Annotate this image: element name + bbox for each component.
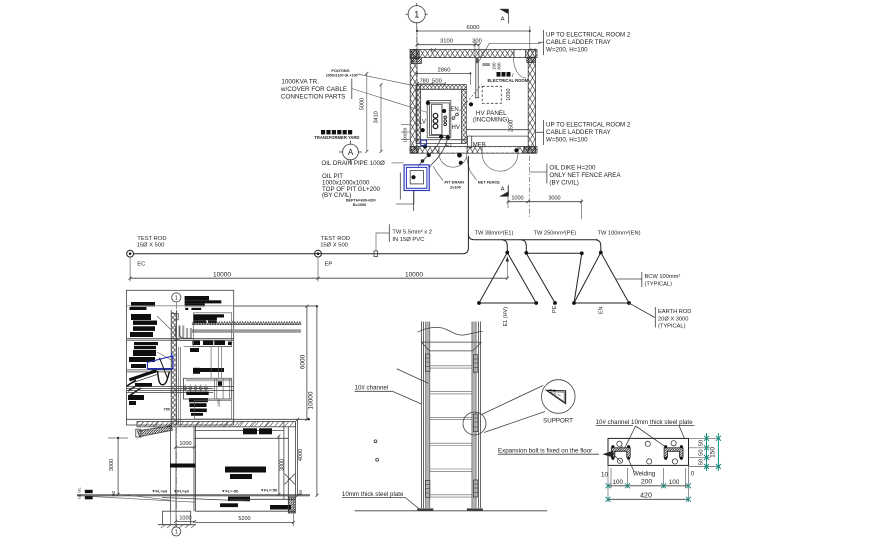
right rail flanges [479,322,481,509]
svg-text:EN: EN [598,306,604,314]
svg-text:1: 1 [175,296,178,302]
svg-text:1000: 1000 [511,196,523,202]
svg-text:1000x1100 GL+100: 1000x1100 GL+100 [326,74,358,78]
section bubble A [339,141,362,164]
ground slope lines [93,495,195,502]
label 10mm thick steel plate [342,491,421,511]
transformer outer box [427,101,451,138]
svg-text:1000: 1000 [179,441,191,447]
svg-text:ONLY NET FENCE AREA: ONLY NET FENCE AREA [549,172,621,179]
rung clips left [425,354,429,497]
svg-text:OIL DRAIN PIPE 100Ø: OIL DRAIN PIPE 100Ø [321,160,385,167]
svg-text:4000: 4000 [298,449,304,461]
svg-text:420: 420 [640,492,652,499]
svg-text:MEB: MEB [473,143,486,149]
svg-text:50: 50 [699,440,705,446]
svg-text:2500: 2500 [508,120,514,132]
blobs inside pit [220,467,291,510]
room frame [126,290,233,425]
expansion bolt label [498,446,623,462]
svg-text:TEST ROD: TEST ROD [137,236,166,242]
dim 3000 (pit right) [277,435,285,497]
duct wedge below slab [136,426,173,437]
svg-text:TW 38mm²(E1): TW 38mm²(E1) [475,231,514,237]
svg-text:IN 15Ø PVC: IN 15Ø PVC [392,237,424,243]
svg-text:250: 250 [403,127,408,135]
wall left [410,50,417,154]
svg-text:GL GL: GL GL [77,487,82,499]
wire drop E1 [502,240,507,253]
svg-text:6000: 6000 [299,354,306,369]
svg-text:EP: EP [325,261,333,267]
svg-text:EC: EC [137,261,145,267]
junction dots [421,101,519,165]
cable tray drop [475,58,490,98]
transformer yard left wall [416,85,420,144]
label 10# channel (plate) [596,419,633,426]
dim 10000 (EC-EP) [129,258,320,282]
svg-text:1450: 1450 [217,399,221,407]
svg-text:E1: E1 [446,143,453,149]
pit floor [162,498,295,512]
section marker A (bottom) [500,185,509,196]
HV room floor lines [466,130,528,136]
GL ground line [77,495,310,496]
dim 10000 (right, vertical) [307,305,318,497]
oil pit drain stub [413,191,415,212]
svg-text:50: 50 [298,490,303,495]
svg-text:W=500, H=100: W=500, H=100 [546,136,588,143]
transformer HV divider [441,104,443,134]
label OIL DRAIN PIPE [321,160,403,167]
earth trunk wire [468,234,597,240]
support posts [179,325,192,338]
dashed pull box [482,86,501,103]
dim 5000 [359,72,368,153]
svg-text:200: 200 [472,39,482,45]
svg-text:PE: PE [552,305,558,313]
dim 150 [710,433,721,471]
serrated roof line [192,322,301,325]
svg-text:5200: 5200 [238,516,250,522]
wire drop EN [595,240,600,253]
cable U loop [158,371,170,385]
top bracket trapezoid [421,342,481,351]
dim 5200 (bottom) [195,501,295,526]
svg-text:10mm thick steel plate: 10mm thick steel plate [631,419,693,426]
inner wall line [179,347,181,425]
svg-text:100: 100 [613,479,624,486]
pit shaft walls [170,427,195,511]
svg-text:6000: 6000 [467,25,480,31]
blobs on pit ceiling [243,428,272,434]
PE link wire [526,253,582,303]
transformer yard bottom edge [416,140,466,144]
wall right [528,50,535,154]
label 10mm thick steel plate (plate) [631,419,695,426]
svg-text:15Ø X 500: 15Ø X 500 [137,242,165,248]
label PIT DRAIN (bold) [433,166,464,189]
svg-text:1000KVA TR.: 1000KVA TR. [281,79,319,86]
svg-text:1: 1 [414,9,419,19]
wire drop PE [521,240,526,253]
support detail circle [542,380,576,414]
thick cable diagonal [129,371,157,384]
joint box on conductor [374,251,378,257]
svg-text:750: 750 [164,407,170,411]
bottom dims extension lines [608,465,689,502]
wall column [171,310,176,425]
svg-text:(INCOMING): (INCOMING) [473,117,509,124]
svg-text:10mm thick steel plate: 10mm thick steel plate [342,491,404,498]
grid bubble 1 (section top) [172,293,181,302]
anchor bolts row [181,385,211,392]
door arcs (bottom doors) [439,153,518,171]
blue drain mark [421,140,427,145]
svg-text:W=200, H=100: W=200, H=100 [546,46,588,53]
label cable ladder tray W=200 [478,30,631,63]
dim 6000 (right, vertical) [234,305,317,421]
svg-text:3410: 3410 [374,111,380,123]
svg-text:TEST ROD: TEST ROD [321,236,350,242]
leaders to channels [625,426,685,448]
grid centerline [416,25,418,57]
pit bottom-right hatch [288,497,295,513]
wall top [410,50,537,58]
svg-text:3000: 3000 [109,459,115,471]
svg-text:1000: 1000 [179,516,191,522]
dim 2860 [416,67,471,84]
label HV PANEL (INCOMING) [473,110,509,124]
svg-text:10000: 10000 [213,271,231,278]
pedestal verticals [215,378,230,399]
label OIL PIT [322,173,400,200]
dim 3410 [374,83,383,153]
GL level marks [77,487,93,500]
floor slab hatched [137,422,295,427]
transformer yard right wall [462,89,467,143]
svg-text:10# channel: 10# channel [355,384,389,391]
dim 1000 3000 (below plan) [507,186,584,219]
label TW 5.5 [376,224,432,251]
svg-text:TW 250mm²(PE): TW 250mm²(PE) [534,231,577,237]
svg-text:EN: EN [450,107,458,113]
svg-text:A: A [348,148,354,157]
conduit bends [175,326,192,340]
svg-text:FOOTING: FOOTING [331,68,349,73]
break wave [418,327,483,335]
shaft black band [170,464,195,468]
svg-text:▼FL=±0: ▼FL=±0 [152,489,168,494]
hatch strokes lower-left [127,380,141,396]
svg-text:15Ø X 500: 15Ø X 500 [320,242,348,248]
transformer yard top wall [416,85,466,90]
dim 3100 / 200 [416,39,482,58]
svg-text:UP TO ELECTRICAL ROOM 2: UP TO ELECTRICAL ROOM 2 [546,31,631,38]
node dots [477,251,631,305]
label 10# channel [355,369,429,404]
svg-text:LV: LV [419,120,426,126]
earth triangle E1 [479,253,536,304]
bracket at column top [171,313,178,320]
svg-text:100: 100 [491,62,496,70]
dim row 100 200 100 [601,471,695,489]
oil pit (blue) [404,165,429,191]
equipment pedestal [183,378,231,399]
dim 50 50 50 [699,433,709,471]
panel outline lower [194,401,231,420]
svg-text:UP TO ELECTRICAL ROOM 2: UP TO ELECTRICAL ROOM 2 [546,121,631,128]
ground line [355,510,548,512]
svg-text:150: 150 [710,447,717,458]
dim 10000 (EP-E1) [318,256,509,280]
dim 4000 (right) [296,418,304,497]
svg-text:20Ø X 3000: 20Ø X 3000 [658,316,688,322]
dashdot extension right [529,156,531,219]
svg-text:50: 50 [699,449,705,455]
channel section 2 [664,445,683,460]
svg-text:2x100: 2x100 [450,184,461,189]
ground floor line [126,418,310,420]
dim 1000 (bottom) [174,516,196,523]
label NET FENCE (bold) [467,157,501,184]
dim 6000 [416,25,531,50]
section marker A (top) [500,9,509,23]
svg-text:BCW 100mm²: BCW 100mm² [645,274,681,280]
footing [158,511,196,528]
rungs [430,366,472,497]
svg-text:TW 100mm²(EN): TW 100mm²(EN) [598,231,641,237]
label EARTH ROD [629,303,691,330]
right rail web [472,322,476,509]
svg-text:SUPPORT: SUPPORT [543,418,573,425]
dim 780 500 [416,79,446,86]
corner blocks [410,50,535,154]
text blobs right column [185,296,232,416]
svg-text:10# channel: 10# channel [596,419,630,426]
door arc (top wall) [513,58,526,78]
svg-text:ELECTRICAL ROOM: ELECTRICAL ROOM [488,78,529,83]
svg-text:TRANSFORMER YARD: TRANSFORMER YARD [314,135,359,140]
svg-text:2860: 2860 [438,67,451,73]
panel outline upper [193,313,231,347]
svg-text:w/COVER FOR CABLE: w/COVER FOR CABLE [280,86,347,93]
svg-text:DEPTH=600+200: DEPTH=600+200 [346,199,376,203]
gray roof bar [192,329,302,333]
label FOOTING [326,68,418,87]
transformer bushings LV [433,113,438,128]
right dims extension lines [689,438,721,466]
pit ceiling lines [195,431,289,439]
base plates [417,508,483,511]
svg-text:1050: 1050 [506,89,512,101]
buried earth conductor [134,156,469,254]
svg-text:Expansion bolt is fixed on the: Expansion bolt is fixed on the floor [498,447,592,454]
label BCW 100mm2 [616,272,681,287]
dim 3000 (left) [108,437,128,496]
left rail flanges [422,322,424,509]
floor build-up lines [127,387,234,393]
svg-text:10000: 10000 [405,271,423,278]
dim 1000 (shaft top) [174,441,196,449]
blue duct wedge [147,353,173,378]
wall anchor marks [432,48,535,51]
dims 100 300 (tray) [491,62,501,70]
earth triangle EN [574,253,629,304]
floor double line under wedge [127,370,172,372]
dim 420 [606,492,692,502]
level labels on GL [152,487,278,493]
dashed cable route [452,85,482,120]
svg-text:0: 0 [691,471,695,478]
left rail web [426,322,430,509]
rung clips right [473,355,477,497]
svg-text:OIL DIKE H=200: OIL DIKE H=200 [549,165,596,172]
transformer bushings HV [444,116,447,126]
label ELECTRICAL ROOM (CJK mimic) [488,72,529,83]
svg-text:50: 50 [111,491,116,496]
transformer inner box [429,103,449,135]
svg-text:EARTH ROD: EARTH ROD [658,309,691,315]
plate rectangle [608,438,689,465]
svg-text:500: 500 [432,79,442,85]
test rod EP [315,236,351,267]
leader lines to column [157,316,171,360]
dims 250 100 (left wall) [401,125,411,143]
label Welding [628,457,656,477]
svg-text:A: A [501,187,505,193]
svg-text:HV: HV [452,125,460,131]
svg-text:▼FL=-50: ▼FL=-50 [260,487,278,492]
svg-text:1: 1 [175,530,178,536]
svg-text:100: 100 [669,479,680,486]
floor lines mid [127,339,234,341]
label oil dike [530,164,622,187]
svg-text:780: 780 [419,79,429,85]
stray dots [374,440,378,461]
svg-text:10000: 10000 [307,391,314,409]
label DEPTH (bold) [346,191,414,208]
label 1000KVA TR [280,79,428,113]
svg-text:CONNECTION PARTS: CONNECTION PARTS [281,94,346,101]
detail projection lines [482,386,546,433]
small rotated dims [164,399,221,412]
pedestal black bar [186,392,208,395]
panel lines [184,347,232,379]
svg-text:▼FL=±0: ▼FL=±0 [173,489,189,494]
node grid bubble 1 (top) [406,3,428,25]
pit right wall [284,422,296,500]
svg-text:3000: 3000 [548,196,560,202]
svg-text:200: 200 [641,479,653,486]
svg-text:CABLE LADDER TRAY: CABLE LADDER TRAY [546,129,611,136]
label cable ladder tray W=500 [536,120,631,145]
svg-text:(TYPICAL): (TYPICAL) [645,281,673,287]
svg-text:(TYPICAL): (TYPICAL) [658,324,686,330]
bolt holes [617,441,678,464]
svg-text:B=1000: B=1000 [353,203,366,207]
grid bubble 1 (section bottom) [172,525,181,536]
svg-text:Welding: Welding [633,471,656,478]
svg-text:50: 50 [699,459,705,465]
svg-text:5000: 5000 [359,98,365,110]
svg-text:10: 10 [601,472,609,479]
gray line upper [126,305,317,307]
support bracket triangle [547,389,566,403]
text blobs left column [128,302,158,405]
svg-text:▼FL=-50: ▼FL=-50 [221,489,239,494]
earth wires to oil pit [419,137,448,169]
label TRANSFORMER YARD (CJK mimic) [314,130,359,140]
svg-text:(BY CIVIL): (BY CIVIL) [549,180,578,187]
svg-text:300: 300 [497,62,502,70]
svg-text:E1 (HV): E1 (HV) [503,307,509,327]
channel section 1 [611,445,630,460]
detail circle on rung [463,412,486,435]
wall bottom [410,147,537,154]
column centerline [175,302,177,526]
svg-text:A: A [501,16,505,22]
svg-text:NET FENCE: NET FENCE [478,179,500,184]
MEB bar [467,136,471,148]
svg-text:3000: 3000 [279,459,285,471]
test rod EC [127,236,167,267]
transformer LV compartment [432,104,442,134]
svg-text:3100: 3100 [440,39,453,45]
svg-text:CABLE LADDER TRAY: CABLE LADDER TRAY [546,39,611,46]
svg-text:TW 5.5mm² x 2: TW 5.5mm² x 2 [392,230,432,236]
svg-text:100: 100 [403,135,408,143]
